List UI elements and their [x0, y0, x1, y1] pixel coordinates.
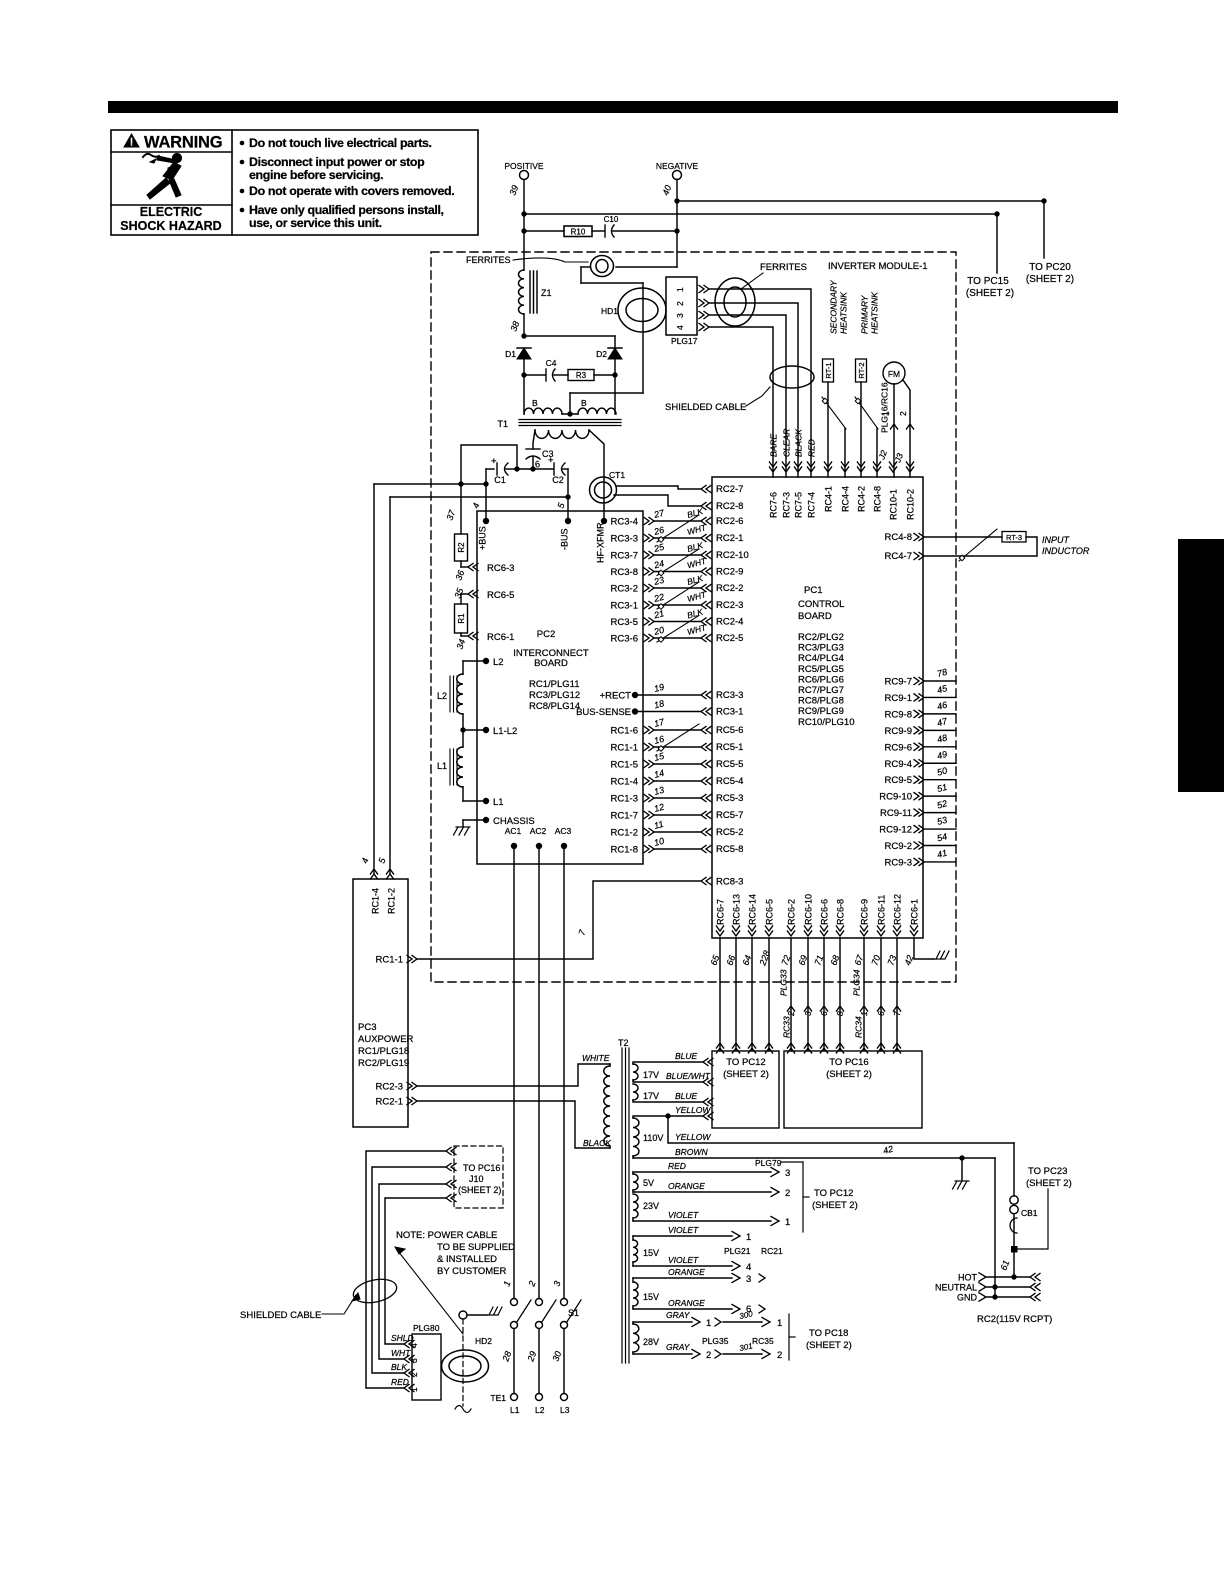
- svg-text:34: 34: [454, 638, 467, 651]
- svg-text:1: 1: [409, 1387, 419, 1392]
- svg-text:RC6-11: RC6-11: [876, 895, 886, 925]
- svg-text:RC6-7: RC6-7: [715, 899, 725, 925]
- svg-text:17: 17: [653, 716, 666, 729]
- svg-text:RC6-3: RC6-3: [487, 563, 514, 574]
- svg-text:TO PC18: TO PC18: [809, 1328, 848, 1339]
- svg-text:RC1/PLG11: RC1/PLG11: [529, 679, 580, 690]
- svg-text:RC1-2: RC1-2: [386, 888, 396, 914]
- svg-text:RC3-1: RC3-1: [716, 707, 743, 718]
- svg-text:RC9-10: RC9-10: [879, 792, 912, 803]
- svg-text:2: 2: [526, 1280, 537, 1289]
- svg-text:L2: L2: [493, 657, 504, 668]
- svg-text:3: 3: [785, 1168, 790, 1179]
- svg-text:AC2: AC2: [530, 826, 547, 836]
- svg-text:Do not operate with covers rem: Do not operate with covers removed.: [249, 184, 454, 198]
- svg-text:RC5-4: RC5-4: [716, 776, 743, 787]
- svg-text:RC1-1: RC1-1: [611, 743, 638, 754]
- svg-text:RC2-9: RC2-9: [716, 567, 743, 578]
- svg-text:36: 36: [453, 569, 466, 582]
- svg-text:RC4-8: RC4-8: [885, 532, 912, 543]
- svg-text:BLUE: BLUE: [675, 1091, 698, 1101]
- svg-text:20: 20: [652, 625, 665, 638]
- svg-text:ELECTRIC: ELECTRIC: [140, 205, 203, 219]
- svg-text:RC3-4: RC3-4: [611, 517, 638, 528]
- svg-text:17V: 17V: [643, 1091, 659, 1101]
- svg-text:PLG79: PLG79: [755, 1158, 782, 1168]
- svg-text:RC5-1: RC5-1: [716, 742, 743, 753]
- svg-text:RC5/PLG5: RC5/PLG5: [798, 664, 844, 675]
- svg-text:52: 52: [936, 798, 948, 810]
- svg-text:1: 1: [675, 287, 685, 292]
- svg-text:SHOCK HAZARD: SHOCK HAZARD: [120, 219, 221, 233]
- svg-text:B: B: [581, 398, 587, 408]
- svg-text:TO PC23: TO PC23: [1028, 1166, 1067, 1177]
- svg-text:4: 4: [470, 502, 481, 510]
- svg-text:(SHEET 2): (SHEET 2): [1026, 1178, 1072, 1189]
- svg-text:15V: 15V: [643, 1248, 659, 1258]
- svg-text:46: 46: [936, 700, 948, 712]
- svg-text:RC6-9: RC6-9: [859, 899, 869, 925]
- svg-text:RC1/PLG18: RC1/PLG18: [358, 1046, 409, 1057]
- svg-text:3: 3: [409, 1358, 419, 1363]
- svg-text:8: 8: [835, 1011, 845, 1016]
- svg-text:25: 25: [652, 541, 666, 554]
- svg-text:(SHEET 2): (SHEET 2): [826, 1069, 872, 1080]
- svg-text:TO PC20: TO PC20: [1029, 262, 1071, 273]
- svg-text:RC2-6: RC2-6: [716, 516, 743, 527]
- svg-text:7: 7: [576, 928, 587, 937]
- svg-text:12: 12: [653, 802, 665, 814]
- svg-text:ORANGE: ORANGE: [668, 1267, 705, 1277]
- svg-text:1: 1: [777, 1318, 782, 1329]
- svg-text:RC2-4: RC2-4: [716, 617, 743, 628]
- svg-text:RC3-3: RC3-3: [611, 534, 638, 545]
- svg-text:RC9-4: RC9-4: [885, 759, 912, 770]
- svg-text:R1: R1: [457, 613, 466, 624]
- svg-text:61: 61: [998, 1259, 1011, 1272]
- svg-text:1: 1: [785, 1217, 790, 1228]
- svg-text:BARE: BARE: [768, 434, 778, 457]
- svg-text:RED: RED: [806, 439, 816, 457]
- svg-text:2: 2: [898, 411, 908, 416]
- svg-text:7: 7: [892, 1011, 902, 1016]
- svg-text:GND: GND: [957, 1293, 978, 1303]
- svg-text:(SHEET 2): (SHEET 2): [966, 288, 1014, 299]
- svg-text:BOARD: BOARD: [534, 658, 568, 669]
- svg-text:21: 21: [652, 608, 665, 621]
- svg-text:PLG16/RC16: PLG16/RC16: [879, 382, 889, 433]
- svg-text:CB1: CB1: [1021, 1208, 1038, 1218]
- svg-text:RC9-8: RC9-8: [885, 709, 912, 720]
- svg-text:10: 10: [653, 836, 665, 848]
- svg-text:2: 2: [786, 1011, 796, 1017]
- svg-text:RC5-8: RC5-8: [716, 844, 743, 855]
- svg-text:17V: 17V: [643, 1070, 659, 1080]
- svg-text:BOARD: BOARD: [798, 611, 832, 622]
- svg-text:& INSTALLED: & INSTALLED: [437, 1254, 497, 1265]
- svg-text:use, or service this unit.: use, or service this unit.: [249, 216, 382, 230]
- svg-text:L2: L2: [535, 1405, 545, 1415]
- svg-text:RC4-1: RC4-1: [823, 486, 833, 512]
- svg-text:RC9/PLG9: RC9/PLG9: [798, 706, 844, 717]
- svg-text:26: 26: [652, 525, 665, 538]
- svg-text:POSITIVE: POSITIVE: [504, 161, 544, 171]
- svg-text:2: 2: [409, 1372, 419, 1377]
- svg-text:INDUCTOR: INDUCTOR: [1042, 546, 1090, 556]
- svg-text:PLG34: PLG34: [851, 969, 861, 996]
- svg-text:RC1-4: RC1-4: [611, 777, 638, 788]
- svg-text:RC9-2: RC9-2: [885, 841, 912, 852]
- svg-text:RC9-9: RC9-9: [885, 726, 912, 737]
- svg-text:24: 24: [652, 558, 665, 571]
- svg-text:PLG33: PLG33: [778, 969, 788, 996]
- svg-text:51: 51: [936, 782, 948, 794]
- svg-text:BLUE/WHT: BLUE/WHT: [666, 1071, 711, 1081]
- svg-text:5: 5: [376, 856, 387, 865]
- svg-text:1: 1: [859, 1011, 869, 1016]
- svg-text:RC7-3: RC7-3: [781, 492, 791, 518]
- svg-text:38: 38: [508, 320, 521, 333]
- svg-text:6: 6: [876, 1011, 886, 1016]
- svg-text:RC3/PLG12: RC3/PLG12: [529, 690, 580, 701]
- svg-text:INPUT: INPUT: [1042, 535, 1071, 545]
- svg-text:B: B: [532, 398, 538, 408]
- svg-text:3: 3: [803, 1011, 813, 1016]
- svg-text:PRIMARY: PRIMARY: [859, 294, 869, 334]
- svg-text:WHITE: WHITE: [582, 1053, 610, 1063]
- svg-text:D2: D2: [596, 349, 607, 359]
- svg-text:(SHEET 2): (SHEET 2): [812, 1200, 858, 1211]
- svg-text:11: 11: [653, 819, 665, 831]
- svg-text:RC2-3: RC2-3: [716, 600, 743, 611]
- svg-text:40: 40: [660, 184, 673, 197]
- svg-text:RC6-1: RC6-1: [909, 899, 919, 925]
- svg-text:RC2(115V RCPT): RC2(115V RCPT): [977, 1314, 1052, 1325]
- svg-text:2: 2: [777, 1350, 782, 1361]
- svg-text:RC9-3: RC9-3: [885, 857, 912, 868]
- svg-text:RC6-5: RC6-5: [487, 590, 514, 601]
- svg-text:TO BE SUPPLIED: TO BE SUPPLIED: [437, 1242, 515, 1253]
- svg-text:41: 41: [936, 848, 948, 860]
- svg-text:4: 4: [746, 1262, 751, 1273]
- svg-text:RC1-5: RC1-5: [611, 760, 638, 771]
- svg-text:RC1-3: RC1-3: [611, 794, 638, 805]
- svg-text:RC3/PLG3: RC3/PLG3: [798, 643, 844, 654]
- svg-text:19: 19: [653, 682, 665, 694]
- svg-text:TO PC12: TO PC12: [726, 1057, 765, 1068]
- svg-text:RC1-7: RC1-7: [611, 811, 638, 822]
- svg-text:18: 18: [653, 698, 665, 710]
- svg-text:RC6/PLG6: RC6/PLG6: [798, 674, 844, 685]
- svg-text:Have only qualified persons in: Have only qualified persons install,: [249, 203, 444, 217]
- svg-text:NEGATIVE: NEGATIVE: [656, 161, 699, 171]
- svg-text:S1: S1: [568, 1308, 579, 1318]
- svg-text:BLACK: BLACK: [793, 429, 803, 457]
- svg-text:RC7/PLG7: RC7/PLG7: [798, 685, 844, 696]
- svg-text:35: 35: [452, 586, 465, 600]
- svg-text:RC8/PLG14: RC8/PLG14: [529, 701, 580, 712]
- svg-text:AC3: AC3: [555, 826, 572, 836]
- svg-text:45: 45: [936, 683, 949, 696]
- svg-text:301: 301: [739, 1341, 754, 1353]
- svg-text:RC4-4: RC4-4: [840, 486, 850, 512]
- svg-text:Do not touch live electrical p: Do not touch live electrical parts.: [249, 136, 432, 150]
- svg-text:BROWN: BROWN: [675, 1147, 708, 1157]
- svg-text:RC6-12: RC6-12: [892, 894, 902, 925]
- svg-text:RC2-7: RC2-7: [716, 484, 743, 495]
- svg-text:+: +: [548, 455, 554, 466]
- svg-text:RC4-2: RC4-2: [856, 486, 866, 512]
- svg-text:16: 16: [653, 734, 665, 746]
- svg-text:L1: L1: [493, 797, 504, 808]
- svg-text:CONTROL: CONTROL: [798, 599, 844, 610]
- svg-text:28V: 28V: [643, 1337, 659, 1347]
- svg-text:C10: C10: [604, 215, 619, 224]
- svg-text:RC1-4: RC1-4: [370, 888, 380, 914]
- svg-text:3: 3: [746, 1274, 751, 1285]
- svg-text:ORANGE: ORANGE: [668, 1181, 705, 1191]
- svg-text:PLG80: PLG80: [413, 1323, 440, 1333]
- svg-text:+BUS: +BUS: [477, 526, 487, 550]
- svg-text:RC34: RC34: [853, 1016, 863, 1038]
- svg-text:NOTE: POWER CABLE: NOTE: POWER CABLE: [396, 1230, 497, 1241]
- svg-text:WARNING: WARNING: [144, 134, 222, 152]
- svg-text:L1: L1: [437, 761, 447, 771]
- svg-text:49: 49: [936, 749, 948, 761]
- svg-text:SECONDARY: SECONDARY: [828, 279, 838, 334]
- svg-text:NEUTRAL: NEUTRAL: [935, 1283, 977, 1293]
- svg-text:30: 30: [550, 1350, 563, 1363]
- svg-text:Disconnect input power or stop: Disconnect input power or stop: [249, 155, 425, 169]
- svg-text:RC5-2: RC5-2: [716, 827, 743, 838]
- svg-text:PC3: PC3: [358, 1022, 376, 1033]
- svg-text:(SHEET 2): (SHEET 2): [723, 1069, 769, 1080]
- svg-text:WHT: WHT: [391, 1348, 411, 1358]
- svg-text:TO PC16: TO PC16: [463, 1163, 500, 1173]
- svg-text:RC3-3: RC3-3: [716, 690, 743, 701]
- svg-text:BLUE: BLUE: [675, 1051, 698, 1061]
- svg-text:RC9-5: RC9-5: [885, 775, 912, 786]
- svg-text:RC10-2: RC10-2: [905, 489, 915, 520]
- svg-text:RC3-1: RC3-1: [611, 601, 638, 612]
- svg-text:ORANGE: ORANGE: [668, 1298, 705, 1308]
- svg-text:TO PC12: TO PC12: [814, 1188, 853, 1199]
- svg-text:RC8-3: RC8-3: [716, 877, 743, 888]
- svg-text:RC35: RC35: [752, 1336, 774, 1346]
- svg-text:INVERTER MODULE-1: INVERTER MODULE-1: [828, 261, 928, 272]
- svg-text:RC5-3: RC5-3: [716, 793, 743, 804]
- svg-text:RC33: RC33: [781, 1016, 791, 1038]
- svg-text:1: 1: [746, 1232, 751, 1243]
- svg-text:RC4-7: RC4-7: [885, 551, 912, 562]
- svg-text:L1-L2: L1-L2: [493, 726, 517, 737]
- svg-text:RC2-5: RC2-5: [716, 633, 743, 644]
- svg-text:RC6-1: RC6-1: [487, 632, 514, 643]
- svg-text:engine before servicing.: engine before servicing.: [249, 168, 383, 182]
- svg-text:HF-XFMR: HF-XFMR: [595, 522, 605, 563]
- svg-text:VIOLET: VIOLET: [668, 1255, 699, 1265]
- svg-text:RC9-11: RC9-11: [880, 808, 912, 819]
- svg-text:4: 4: [409, 1343, 419, 1348]
- svg-text:YELLOW: YELLOW: [675, 1132, 711, 1142]
- svg-text:L3: L3: [560, 1405, 570, 1415]
- svg-text:23: 23: [652, 575, 665, 588]
- svg-text:RC3-5: RC3-5: [611, 617, 638, 628]
- svg-text:28: 28: [500, 1350, 513, 1364]
- svg-text:300: 300: [739, 1309, 754, 1321]
- svg-text:RC10-1: RC10-1: [888, 489, 898, 520]
- svg-text:29: 29: [525, 1350, 538, 1364]
- svg-text:TO PC16: TO PC16: [829, 1057, 868, 1068]
- svg-text:RC6-14: RC6-14: [747, 894, 757, 925]
- svg-text:48: 48: [936, 732, 948, 744]
- svg-text:R10: R10: [571, 228, 586, 237]
- svg-text:15: 15: [653, 750, 666, 763]
- svg-text:RC7-4: RC7-4: [806, 492, 816, 518]
- svg-text:+: +: [491, 456, 497, 467]
- svg-text:RC1-2: RC1-2: [611, 828, 638, 839]
- svg-text:22: 22: [652, 592, 665, 605]
- svg-text:RC2-3: RC2-3: [376, 1082, 403, 1093]
- svg-text:Z1: Z1: [541, 288, 552, 298]
- svg-text:HD1: HD1: [601, 306, 618, 316]
- svg-text:RC6-10: RC6-10: [803, 894, 813, 925]
- svg-text:RC6-8: RC6-8: [835, 899, 845, 925]
- svg-text:D1: D1: [505, 349, 516, 359]
- svg-text:TO PC15: TO PC15: [967, 276, 1009, 287]
- svg-text:4: 4: [675, 325, 685, 330]
- svg-text:RC9-6: RC9-6: [885, 742, 912, 753]
- svg-text:RT-3: RT-3: [1006, 533, 1022, 542]
- svg-text:RT-2: RT-2: [857, 362, 866, 378]
- svg-text:RC9-1: RC9-1: [885, 693, 912, 704]
- svg-text:23V: 23V: [643, 1201, 659, 1211]
- svg-text:GRAY: GRAY: [666, 1342, 691, 1352]
- svg-text:C1: C1: [494, 475, 506, 485]
- svg-text:BLACK: BLACK: [583, 1138, 611, 1148]
- svg-text:47: 47: [936, 716, 949, 729]
- svg-text:228: 228: [757, 949, 772, 967]
- svg-text:RC4-8: RC4-8: [872, 486, 882, 512]
- svg-text:+RECT: +RECT: [600, 691, 632, 702]
- svg-text:RC8/PLG8: RC8/PLG8: [798, 696, 844, 707]
- svg-text:2: 2: [785, 1188, 790, 1199]
- svg-text:CLEAR: CLEAR: [781, 429, 791, 457]
- svg-text:SHLD: SHLD: [391, 1333, 414, 1343]
- svg-text:HOT: HOT: [958, 1273, 978, 1283]
- svg-text:4: 4: [359, 857, 370, 865]
- svg-text:2: 2: [706, 1350, 711, 1361]
- svg-text:RC7-6: RC7-6: [768, 492, 778, 518]
- svg-text:39: 39: [507, 184, 520, 197]
- svg-text:3: 3: [551, 1280, 562, 1288]
- svg-text:RC6-6: RC6-6: [819, 899, 829, 925]
- svg-text:RC3-6: RC3-6: [611, 634, 638, 645]
- svg-text:RED: RED: [668, 1161, 686, 1171]
- svg-text:FERRITES: FERRITES: [760, 262, 807, 273]
- svg-text:RC1-8: RC1-8: [611, 845, 638, 856]
- svg-text:RC6-2: RC6-2: [786, 899, 796, 925]
- svg-text:2: 2: [675, 301, 685, 306]
- svg-text:RC7-5: RC7-5: [793, 492, 803, 518]
- svg-text:PLG17: PLG17: [671, 336, 698, 346]
- svg-text:SHIELDED CABLE: SHIELDED CABLE: [240, 1310, 321, 1321]
- svg-text:110V: 110V: [643, 1133, 663, 1143]
- svg-text:RC2-2: RC2-2: [716, 583, 743, 594]
- svg-text:BUS-SENSE: BUS-SENSE: [576, 707, 631, 718]
- svg-text:RED: RED: [391, 1377, 409, 1387]
- svg-text:RC2/PLG19: RC2/PLG19: [358, 1058, 409, 1069]
- svg-text:42: 42: [882, 1144, 894, 1156]
- svg-text:RC6-5: RC6-5: [764, 899, 774, 925]
- svg-text:RC2-8: RC2-8: [716, 501, 743, 512]
- svg-text:RC3-2: RC3-2: [611, 584, 638, 595]
- svg-text:BLK: BLK: [391, 1362, 407, 1372]
- svg-text:RC2-1: RC2-1: [716, 533, 743, 544]
- svg-text:YELLOW: YELLOW: [675, 1105, 711, 1115]
- svg-text:GRAY: GRAY: [666, 1310, 691, 1320]
- svg-text:BY CUSTOMER: BY CUSTOMER: [437, 1266, 506, 1277]
- svg-text:RC9-12: RC9-12: [879, 825, 912, 836]
- svg-text:PLG35: PLG35: [702, 1336, 729, 1346]
- svg-text:RC2-1: RC2-1: [376, 1097, 403, 1108]
- svg-text:C2: C2: [552, 475, 564, 485]
- svg-text:6: 6: [819, 1011, 829, 1016]
- svg-text:-BUS: -BUS: [559, 528, 569, 550]
- svg-text:SHIELDED CABLE: SHIELDED CABLE: [665, 402, 746, 413]
- svg-text:AC1: AC1: [505, 826, 522, 836]
- svg-text:53: 53: [936, 815, 948, 827]
- svg-text:RC5-6: RC5-6: [716, 725, 743, 736]
- svg-text:T2: T2: [618, 1038, 629, 1048]
- svg-text:50: 50: [936, 765, 948, 777]
- svg-text:(SHEET 2): (SHEET 2): [458, 1185, 501, 1195]
- svg-text:J10: J10: [469, 1174, 484, 1184]
- svg-text:FM: FM: [888, 369, 900, 379]
- svg-text:CT1: CT1: [609, 470, 625, 480]
- svg-text:RC21: RC21: [761, 1246, 783, 1256]
- svg-text:VIOLET: VIOLET: [668, 1210, 699, 1220]
- svg-text:RT-1: RT-1: [824, 362, 833, 378]
- svg-text:RC10/PLG10: RC10/PLG10: [798, 717, 855, 728]
- svg-text:TE1: TE1: [490, 1393, 506, 1403]
- svg-text:T1: T1: [497, 419, 508, 429]
- svg-text:HD2: HD2: [475, 1336, 492, 1346]
- svg-text:RC2-10: RC2-10: [716, 550, 749, 561]
- svg-text:HEATSINK: HEATSINK: [869, 292, 879, 334]
- svg-text:3: 3: [675, 313, 685, 318]
- svg-text:R2: R2: [457, 542, 466, 553]
- svg-text:HEATSINK: HEATSINK: [838, 292, 848, 334]
- svg-text:37: 37: [444, 508, 457, 522]
- svg-text:FERRITES: FERRITES: [466, 255, 511, 265]
- svg-text:L2: L2: [437, 691, 447, 701]
- svg-text:27: 27: [652, 507, 666, 520]
- svg-text:VIOLET: VIOLET: [668, 1225, 699, 1235]
- svg-text:RC1-1: RC1-1: [376, 955, 403, 966]
- svg-text:54: 54: [936, 831, 948, 843]
- svg-text:J2: J2: [876, 449, 889, 462]
- svg-text:L1: L1: [510, 1405, 520, 1415]
- svg-text:RC1-6: RC1-6: [611, 726, 638, 737]
- svg-text:RC2/PLG2: RC2/PLG2: [798, 632, 844, 643]
- svg-text:78: 78: [936, 667, 948, 679]
- svg-text:PC1: PC1: [804, 585, 822, 596]
- svg-text:5: 5: [555, 501, 566, 510]
- svg-text:5V: 5V: [643, 1178, 654, 1188]
- svg-text:RC5-7: RC5-7: [716, 810, 743, 821]
- svg-text:15V: 15V: [643, 1292, 659, 1302]
